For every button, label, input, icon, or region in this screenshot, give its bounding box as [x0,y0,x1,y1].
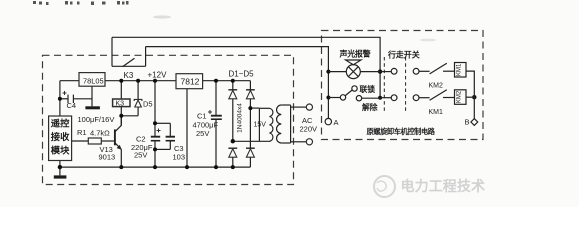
svg-text:遥控: 遥控 [51,118,70,129]
svg-text:模块: 模块 [51,145,70,156]
svg-text:B: B [465,118,470,127]
svg-text:C1: C1 [197,112,207,121]
svg-text:4.7kΩ: 4.7kΩ [90,129,110,138]
svg-text:78L05: 78L05 [83,77,104,86]
svg-text:C4: C4 [67,101,77,110]
svg-text:R1: R1 [77,128,87,137]
svg-text:K3: K3 [116,101,125,108]
svg-text:15V: 15V [254,122,267,129]
svg-text:100μF/16V: 100μF/16V [78,115,115,124]
svg-text:9013: 9013 [99,153,116,162]
svg-text:25V: 25V [196,129,209,138]
svg-text:7812: 7812 [181,77,200,87]
svg-text:电力工程技术: 电力工程技术 [401,178,486,194]
svg-text:联锁: 联锁 [360,84,376,94]
svg-text:K3: K3 [124,71,134,80]
svg-text:KM1: KM1 [429,109,444,116]
svg-text:1N4004x4: 1N4004x4 [237,103,244,133]
svg-text:KM2: KM2 [429,83,444,90]
svg-text:103: 103 [173,153,186,162]
svg-text:解除: 解除 [362,102,378,112]
svg-text:KM2: KM2 [457,90,463,103]
svg-text:声光报警: 声光报警 [339,49,371,59]
svg-text:D1~D5: D1~D5 [229,70,255,79]
svg-text:+12V: +12V [148,71,168,80]
svg-text:原螺旋卸车机控制电路: 原螺旋卸车机控制电路 [367,127,436,136]
svg-text:行走开关: 行走开关 [387,50,420,60]
svg-text:25V: 25V [134,151,147,160]
svg-text:A: A [334,118,339,127]
svg-text:220V: 220V [300,125,318,134]
svg-text:接收: 接收 [51,131,70,142]
svg-text:D5: D5 [143,100,153,109]
svg-text:KM1: KM1 [457,63,463,76]
